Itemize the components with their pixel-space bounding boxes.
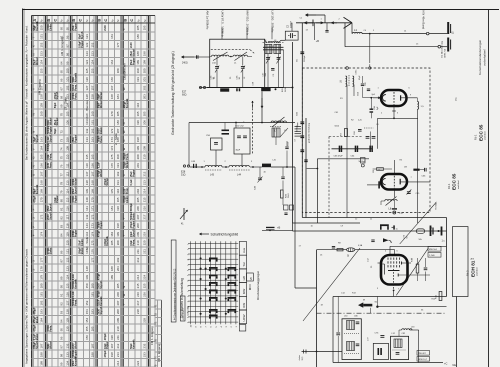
svg-text:111: 111 (65, 163, 69, 168)
svg-text:0,1uF: 0,1uF (72, 291, 75, 298)
svg-text:W: W (32, 113, 36, 116)
svg-text:195: 195 (136, 111, 140, 116)
svg-text:AM 1a 500kHz: AM 1a 500kHz (206, 11, 210, 31)
svg-text:194: 194 (136, 102, 140, 107)
svg-text:211: 211 (116, 335, 120, 340)
svg-text:212: 212 (116, 343, 120, 348)
svg-text:188: 188 (90, 352, 94, 357)
svg-text:2. - Stufe: 2. - Stufe (114, 133, 118, 145)
svg-text:99: 99 (59, 362, 63, 366)
svg-text:Gedruckte Tastenschaltung: MW: Gedruckte Tastenschaltung: MW gedrückt (… (171, 51, 175, 135)
svg-text:Schaltrichtungsbild: Schaltrichtungsbild (211, 233, 239, 237)
svg-text:183: 183 (39, 309, 43, 314)
svg-text:112: 112 (65, 171, 69, 176)
svg-text:Elektr.: Elektr. (126, 195, 129, 203)
svg-text:174: 174 (110, 145, 114, 150)
svg-text:Keramik: Keramik (75, 356, 78, 366)
svg-text:187: 187 (90, 343, 94, 348)
svg-text:188: 188 (39, 352, 43, 357)
svg-text:S: S (32, 269, 36, 271)
svg-text:B: B (46, 19, 51, 22)
svg-text:Papier: Papier (75, 230, 78, 237)
svg-text:0,1uF: 0,1uF (97, 162, 100, 169)
svg-text:Wickel: Wickel (100, 169, 103, 177)
svg-text:105: 105 (65, 111, 69, 116)
svg-text:N: N (32, 131, 36, 133)
svg-text:Styrofl.: Styrofl. (50, 203, 53, 212)
svg-text:207: 207 (116, 300, 120, 305)
svg-text:UKW-Teil: UKW-Teil (445, 48, 447, 58)
svg-text:114: 114 (65, 189, 69, 194)
svg-text:101: 101 (65, 77, 69, 82)
svg-text:Nr: Nr (144, 19, 147, 22)
svg-text:Perm.: Perm. (75, 299, 78, 306)
svg-text:95: 95 (59, 328, 63, 332)
svg-text:123: 123 (65, 266, 69, 271)
svg-text:Styrofl.: Styrofl. (56, 91, 59, 100)
svg-text:169: 169 (39, 188, 43, 193)
svg-text:Wickel: Wickel (132, 49, 135, 57)
svg-text:Keramik: Keramik (126, 98, 129, 108)
svg-text:A: A (32, 19, 37, 22)
svg-text:168: 168 (90, 180, 94, 185)
svg-text:A: A (122, 174, 126, 176)
svg-text:97: 97 (65, 44, 69, 48)
svg-text:184: 184 (110, 231, 114, 236)
svg-text:7: 7 (187, 322, 189, 323)
svg-text:225: 225 (143, 283, 147, 288)
svg-text:165: 165 (90, 154, 94, 159)
svg-text:+B: +B (316, 40, 319, 43)
svg-text:179: 179 (110, 188, 114, 193)
svg-text:Drucktastenaggregat: Drucktastenaggregat (256, 271, 260, 300)
svg-text:2,2kΩ: 2,2kΩ (429, 255, 435, 257)
svg-text:202: 202 (143, 85, 147, 90)
svg-text:174: 174 (90, 231, 94, 236)
svg-text:40pF: 40pF (359, 75, 361, 80)
svg-text:173: 173 (90, 223, 94, 228)
svg-text:226: 226 (143, 292, 147, 297)
svg-text:2,2k: 2,2k (358, 120, 362, 122)
svg-text:100: 100 (65, 68, 69, 73)
svg-text:Papier: Papier (75, 23, 78, 30)
svg-text:109: 109 (65, 145, 69, 150)
svg-text:Wickel: Wickel (126, 160, 129, 168)
svg-text:142: 142 (85, 214, 89, 219)
svg-text:200: 200 (143, 68, 147, 73)
svg-text:C: C (129, 19, 134, 22)
svg-text:8: 8 (187, 280, 189, 281)
svg-text:30pF: 30pF (236, 150, 241, 152)
svg-text:Styrofl.: Styrofl. (100, 306, 103, 315)
svg-text:182: 182 (39, 300, 43, 305)
svg-text:204: 204 (136, 188, 140, 193)
svg-text:207: 207 (136, 214, 140, 219)
svg-text:5k: 5k (407, 236, 409, 238)
svg-text:183: 183 (116, 94, 120, 99)
svg-text:F: F (32, 208, 36, 210)
svg-text:+B: +B (277, 226, 281, 230)
svg-text:216: 216 (143, 206, 147, 211)
svg-text:84: 84 (59, 233, 63, 237)
svg-text:65: 65 (59, 70, 63, 74)
svg-text:126: 126 (65, 292, 69, 297)
svg-text:215: 215 (143, 197, 147, 202)
svg-text:149: 149 (85, 274, 89, 279)
svg-text:203: 203 (116, 266, 120, 271)
svg-text:159: 159 (39, 102, 43, 107)
svg-text:153: 153 (39, 51, 43, 56)
svg-text:202: 202 (116, 257, 120, 262)
svg-text:176: 176 (110, 163, 114, 168)
svg-text:141: 141 (85, 206, 89, 211)
svg-text:V: V (32, 88, 36, 90)
svg-text:164: 164 (39, 145, 43, 150)
svg-text:166: 166 (90, 163, 94, 168)
svg-text:201: 201 (143, 77, 147, 82)
svg-text:470pF: 470pF (97, 230, 100, 237)
svg-text:119: 119 (65, 232, 69, 237)
svg-text:185: 185 (116, 111, 120, 116)
svg-text:9: 9 (187, 286, 189, 287)
svg-text:Wickel: Wickel (75, 178, 78, 186)
svg-text:195: 195 (116, 197, 120, 202)
svg-text:138: 138 (85, 180, 89, 185)
svg-text:G: G (122, 140, 126, 142)
svg-text:Aus: Aus (242, 247, 246, 253)
svg-text:170: 170 (90, 197, 94, 202)
svg-text:98: 98 (59, 353, 63, 357)
svg-text:Perm.: Perm. (126, 153, 129, 160)
svg-text:177: 177 (90, 257, 94, 262)
svg-text:Wickel: Wickel (100, 92, 103, 100)
svg-text:Perm.: Perm. (50, 325, 53, 332)
svg-text:N: N (122, 286, 126, 288)
svg-text:Wickel: Wickel (56, 117, 59, 125)
svg-text:Bei Kondensatoren (B) ohne Ang: Bei Kondensatoren (B) ohne Angabe: Werte… (24, 25, 28, 160)
svg-text:87: 87 (59, 259, 63, 263)
svg-text:157: 157 (90, 85, 94, 90)
svg-text:164: 164 (110, 59, 114, 64)
svg-text:Wickel: Wickel (50, 117, 53, 125)
svg-text:Elektr.: Elektr. (132, 212, 135, 220)
svg-text:120: 120 (65, 240, 69, 245)
svg-text:95: 95 (65, 27, 69, 31)
svg-text:214: 214 (116, 360, 120, 365)
svg-text:186: 186 (136, 34, 140, 39)
svg-text:188: 188 (110, 266, 114, 271)
svg-text:208: 208 (136, 223, 140, 228)
svg-text:163: 163 (90, 137, 94, 142)
svg-text:470pF: 470pF (33, 307, 36, 314)
svg-text:werkseitig: werkseitig (187, 305, 190, 316)
svg-text:7HJ 2A4L: 7HJ 2A4L (435, 200, 438, 210)
svg-text:117: 117 (65, 214, 69, 219)
svg-text:Rö 1: Rö 1 (447, 183, 451, 189)
svg-text:185: 185 (90, 326, 94, 331)
svg-text:Perm.: Perm. (126, 187, 129, 194)
svg-text:ZF - Stufe: ZF - Stufe (64, 97, 68, 110)
svg-text:51Ω: 51Ω (181, 173, 186, 176)
svg-text:5: 5 (187, 265, 189, 266)
svg-text:Styrofl.: Styrofl. (36, 340, 39, 349)
svg-text:98: 98 (65, 52, 69, 56)
svg-text:MW 510...1620kHz: MW 510...1620kHz (246, 11, 250, 36)
svg-text:224: 224 (136, 360, 140, 365)
svg-text:4: 4 (187, 259, 189, 260)
svg-text:92: 92 (59, 302, 63, 306)
svg-text:LW 150...305kHz: LW 150...305kHz (271, 11, 275, 34)
svg-text:Nr: Nr (111, 19, 114, 22)
svg-text:Konstruktionsänderungen: Konstruktionsänderungen (478, 39, 482, 75)
svg-text:5000pF: 5000pF (130, 203, 133, 212)
svg-text:152: 152 (39, 42, 43, 47)
svg-text:116: 116 (65, 206, 69, 211)
svg-text:470pF: 470pF (97, 290, 100, 297)
svg-text:MW 487: MW 487 (418, 353, 427, 355)
svg-text:80: 80 (59, 199, 63, 203)
svg-text:212: 212 (143, 171, 147, 176)
svg-text:KW: KW (242, 303, 246, 308)
svg-text:121: 121 (85, 34, 89, 39)
svg-text:140: 140 (85, 197, 89, 202)
svg-text:6: 6 (187, 317, 189, 318)
svg-text:194: 194 (116, 188, 120, 193)
svg-text:198: 198 (110, 352, 114, 357)
svg-text:Nr: Nr (67, 19, 70, 22)
svg-text:Perm.: Perm. (50, 161, 53, 168)
svg-text:78: 78 (59, 181, 63, 185)
svg-text:Styrofl.: Styrofl. (50, 211, 53, 220)
svg-text:154: 154 (90, 59, 94, 64)
svg-text:128: 128 (65, 309, 69, 314)
svg-text:470pF: 470pF (104, 333, 107, 340)
svg-text:229: 229 (143, 317, 147, 322)
svg-text:Nr: Nr (86, 19, 89, 22)
svg-text:215: 215 (136, 283, 140, 288)
svg-text:B: B (123, 19, 128, 22)
svg-text:198: 198 (143, 51, 147, 56)
svg-text:175: 175 (90, 240, 94, 245)
svg-text:A B: A B (471, 258, 475, 261)
svg-text:93: 93 (59, 310, 63, 314)
svg-text:208: 208 (116, 309, 120, 314)
svg-text:1: 1 (187, 244, 189, 245)
svg-text:Papier: Papier (106, 342, 109, 349)
svg-text:ECC 85: ECC 85 (478, 124, 483, 141)
svg-text:64: 64 (59, 61, 63, 65)
svg-text:199: 199 (136, 145, 140, 150)
svg-text:125: 125 (85, 68, 89, 73)
svg-text:C: C (103, 19, 108, 22)
svg-text:205: 205 (143, 111, 147, 116)
svg-text:167: 167 (39, 171, 43, 176)
svg-text:224: 224 (143, 274, 147, 279)
svg-text:216: 216 (136, 292, 140, 297)
svg-text:210: 210 (116, 326, 120, 331)
svg-text:Styrofl.: Styrofl. (36, 134, 39, 143)
svg-text:89: 89 (59, 276, 63, 280)
svg-text:0,1uF: 0,1uF (130, 179, 133, 186)
svg-text:Elektr.: Elektr. (81, 238, 84, 246)
svg-text:232: 232 (143, 343, 147, 348)
svg-text:MW: MW (242, 289, 246, 294)
svg-text:135: 135 (85, 154, 89, 159)
svg-text:163: 163 (39, 137, 43, 142)
svg-text:198: 198 (116, 223, 120, 228)
svg-text:Elektr.: Elektr. (36, 333, 39, 341)
svg-text:66: 66 (59, 78, 63, 82)
svg-text:151: 151 (39, 34, 43, 39)
svg-text:118: 118 (65, 223, 69, 228)
svg-text:181: 181 (110, 206, 114, 211)
svg-text:125: 125 (65, 283, 69, 288)
svg-text:gedruckte Schaltung: gedruckte Schaltung (308, 122, 311, 143)
svg-text:und ähnl.: und ähnl. (485, 131, 487, 140)
svg-text:172: 172 (110, 128, 114, 133)
svg-text:200: 200 (116, 240, 120, 245)
svg-text:ECC 85: ECC 85 (452, 173, 457, 190)
svg-text:191: 191 (116, 163, 120, 168)
svg-text:193: 193 (116, 180, 120, 185)
svg-text:132: 132 (85, 128, 89, 133)
svg-text:122: 122 (65, 257, 69, 262)
svg-text:B: B (71, 19, 76, 22)
svg-text:Papier: Papier (132, 58, 135, 65)
svg-text:158: 158 (90, 94, 94, 99)
svg-text:209: 209 (143, 145, 147, 150)
svg-text:201: 201 (136, 163, 140, 168)
svg-text:5000pF: 5000pF (304, 54, 306, 62)
svg-text:Styrofl.: Styrofl. (100, 280, 103, 289)
svg-text:Rö 1: Rö 1 (474, 134, 478, 140)
svg-text:V: V (32, 148, 36, 150)
svg-text:128: 128 (85, 94, 89, 99)
svg-text:K: K (32, 45, 36, 47)
svg-text:Styrofl.: Styrofl. (81, 31, 84, 40)
svg-text:97: 97 (59, 345, 63, 349)
svg-text:Styrofl.: Styrofl. (132, 229, 135, 238)
svg-text:50pF: 50pF (54, 128, 57, 134)
svg-text:106: 106 (65, 120, 69, 125)
svg-text:115: 115 (65, 197, 69, 202)
svg-text:210: 210 (143, 154, 147, 159)
svg-text:Papier: Papier (75, 135, 78, 142)
svg-text:1 N20 104 Tl: 1 N20 104 Tl (183, 308, 185, 321)
svg-text:206: 206 (116, 292, 120, 297)
svg-text:Elektr.: Elektr. (50, 247, 53, 255)
svg-text:211: 211 (136, 249, 140, 254)
svg-text:183: 183 (90, 309, 94, 314)
svg-text:Keramik: Keramik (132, 339, 135, 349)
svg-text:113: 113 (65, 180, 69, 185)
svg-text:188: 188 (136, 51, 140, 56)
svg-text:Nr: Nr (92, 19, 95, 22)
svg-text:180: 180 (39, 283, 43, 288)
svg-text:196: 196 (110, 335, 114, 340)
svg-text:162: 162 (90, 128, 94, 133)
svg-text:Wickel: Wickel (100, 100, 103, 108)
svg-text:102: 102 (65, 85, 69, 90)
svg-text:6: 6 (187, 270, 189, 271)
svg-text:1M: 1M (404, 167, 407, 169)
svg-text:Perm.: Perm. (132, 239, 135, 246)
svg-text:203: 203 (143, 94, 147, 99)
svg-text:205: 205 (116, 283, 120, 288)
svg-text:Papier: Papier (132, 170, 135, 177)
svg-text:213: 213 (116, 352, 120, 357)
svg-text:79: 79 (59, 190, 63, 194)
svg-text:166: 166 (39, 163, 43, 168)
svg-text:LW: LW (242, 276, 246, 280)
svg-text:56kΩ: 56kΩ (288, 193, 290, 198)
svg-text:200: 200 (136, 154, 140, 159)
svg-text:150: 150 (85, 283, 89, 288)
svg-text:72: 72 (59, 130, 63, 134)
svg-text:199: 199 (143, 59, 147, 64)
svg-text:122: 122 (85, 42, 89, 47)
svg-text:217: 217 (143, 214, 147, 219)
svg-text:181: 181 (39, 292, 43, 297)
svg-text:185: 185 (136, 25, 140, 30)
svg-text:176: 176 (90, 249, 94, 254)
svg-text:2x30: 2x30 (104, 25, 107, 31)
svg-text:172: 172 (90, 214, 94, 219)
svg-text:186: 186 (116, 120, 120, 125)
svg-text:Elektr.: Elektr. (100, 126, 103, 134)
svg-text:N: N (122, 122, 126, 124)
svg-text:161: 161 (90, 120, 94, 125)
svg-text:M: M (363, 300, 365, 302)
svg-text:470pF: 470pF (104, 350, 107, 357)
svg-text:133: 133 (65, 352, 69, 357)
svg-text:167: 167 (90, 171, 94, 176)
svg-text:152: 152 (85, 300, 89, 305)
svg-text:1: 1 (187, 291, 189, 292)
svg-text:1000pF: 1000pF (290, 20, 292, 28)
svg-text:VII: VII (249, 277, 253, 280)
svg-text:180: 180 (90, 283, 94, 288)
svg-text:124: 124 (85, 59, 89, 64)
svg-text:Nr: Nr (61, 19, 64, 22)
svg-text:165: 165 (39, 154, 43, 159)
svg-text:Papier: Papier (132, 221, 135, 228)
svg-text:Wickel: Wickel (75, 341, 78, 349)
svg-text:0,3A: 0,3A (358, 244, 363, 247)
svg-text:121: 121 (65, 249, 69, 254)
svg-text:Perm.: Perm. (50, 153, 53, 160)
svg-text:2: 2 (187, 249, 189, 250)
svg-text:Styrofl.: Styrofl. (75, 186, 78, 195)
svg-text:5000pF: 5000pF (47, 142, 50, 151)
svg-text:Wickel: Wickel (50, 341, 53, 349)
svg-text:Perm.: Perm. (100, 136, 103, 143)
svg-text:133: 133 (85, 137, 89, 142)
svg-text:Elektr.: Elektr. (81, 247, 84, 255)
svg-text:152: 152 (90, 42, 94, 47)
svg-text:160: 160 (39, 111, 43, 116)
svg-text:KW 49m Band: KW 49m Band (422, 11, 426, 30)
svg-text:240Ω: 240Ω (182, 63, 188, 65)
svg-text:126: 126 (85, 77, 89, 82)
svg-text:rückw.: rückw. (299, 354, 301, 360)
svg-text:220: 220 (143, 240, 147, 245)
svg-text:75: 75 (59, 156, 63, 160)
svg-text:137: 137 (85, 171, 89, 176)
svg-text:3: 3 (187, 254, 189, 255)
svg-text:5000pF: 5000pF (297, 124, 299, 132)
svg-text:und ähnl.: und ähnl. (477, 267, 479, 276)
